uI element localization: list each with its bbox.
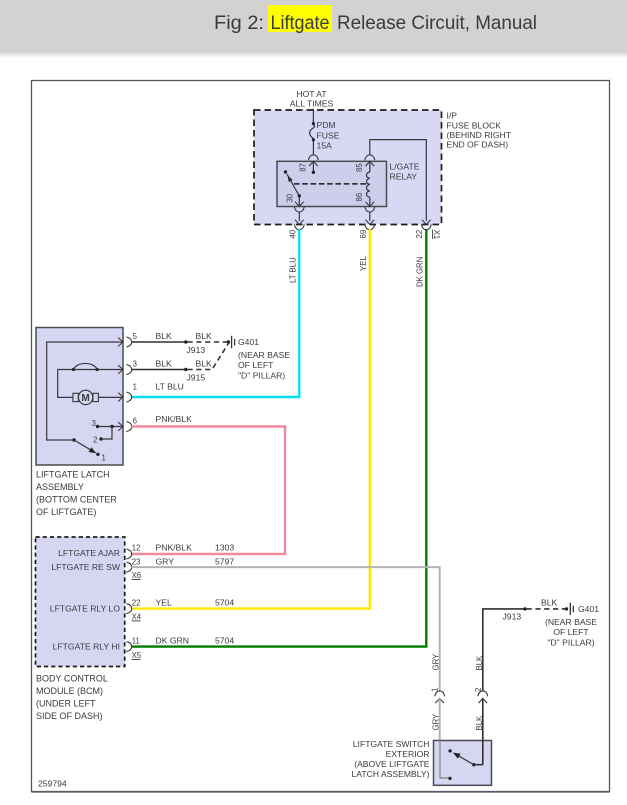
switch S1 contacts and blade — [448, 749, 475, 780]
svg-text:GRY: GRY — [432, 653, 441, 671]
pin label 40 — [289, 229, 298, 238]
BCM pin cups 12 23 22 11 — [126, 549, 131, 652]
svg-text:BLK: BLK — [156, 358, 173, 368]
svg-text:15A: 15A — [317, 141, 333, 151]
svg-text:RELAY: RELAY — [390, 171, 418, 181]
relay U1 L/GATE RELAY (box) — [277, 161, 387, 206]
svg-text:LFTGATE AJAR: LFTGATE AJAR — [58, 548, 120, 558]
label DK GRN 5704 — [156, 635, 235, 645]
connector label X5 — [132, 651, 142, 660]
svg-text:(NEAR BASE: (NEAR BASE — [238, 350, 290, 360]
label BLK (to G401) — [196, 331, 213, 341]
wire GRY inside switch box — [440, 741, 449, 779]
label G401 (upper) — [238, 337, 290, 380]
svg-text:"D" PILLAR): "D" PILLAR) — [547, 637, 594, 647]
label BLK (pin3 to G401) — [196, 358, 213, 368]
splice label J915 — [187, 372, 206, 382]
label BLK vertical (below break) — [475, 715, 484, 731]
label PNK/BLK (latch end) — [156, 414, 193, 424]
svg-text:1: 1 — [102, 454, 106, 463]
svg-text:Fig 2:: Fig 2: — [214, 12, 264, 34]
latch pin cups 5 3 1 6 — [126, 337, 131, 432]
relay pin 30 wire to box bottom — [295, 194, 304, 206]
svg-text:30: 30 — [286, 193, 295, 202]
svg-text:OF LEFT: OF LEFT — [238, 360, 274, 370]
label YEL vertical — [359, 256, 368, 271]
svg-text:3: 3 — [133, 360, 137, 369]
fuse block bottom connector cups X1 — [294, 224, 431, 229]
label GRY vertical (below break) — [432, 713, 441, 731]
latch contact label 1 — [102, 454, 106, 463]
splice label J913 — [187, 345, 206, 355]
wire BLK latch pin 3 to splice J915 — [131, 368, 187, 371]
relay pin 30 exit cup and wire to fuse block edge — [294, 207, 304, 225]
svg-text:LFTGATE RLY LO: LFTGATE RLY LO — [50, 604, 121, 614]
svg-text:MODULE (BCM): MODULE (BCM) — [36, 686, 103, 696]
label BLK (lower ground run) — [541, 598, 558, 608]
svg-text:BLK: BLK — [475, 655, 484, 671]
svg-text:LIFTGATE SWITCH: LIFTGATE SWITCH — [353, 739, 430, 749]
svg-text:G401: G401 — [238, 337, 259, 347]
svg-text:3: 3 — [92, 419, 96, 428]
pin label 22 — [415, 230, 424, 239]
label GRY 5797 — [156, 556, 235, 566]
label BODY CONTROL MODULE (BCM) (UNDER LEFT SIDE OF DASH) — [36, 674, 108, 722]
svg-text:I/P: I/P — [447, 111, 458, 121]
svg-text:Release Circuit, Manual: Release Circuit, Manual — [337, 12, 537, 34]
connector cup at relay pin 85 — [365, 155, 375, 160]
svg-text:5704: 5704 — [215, 597, 234, 607]
svg-text:(BEHIND RIGHT: (BEHIND RIGHT — [447, 130, 512, 140]
connector cavity label 2 — [474, 688, 483, 692]
svg-text:OF LEFT: OF LEFT — [553, 627, 589, 637]
pin label 6 — [133, 417, 137, 426]
relay switch blade (30 to 87) — [284, 170, 300, 196]
svg-text:DK GRN: DK GRN — [415, 257, 424, 287]
label DK GRN vertical — [415, 257, 424, 287]
wire YEL (relay 86 to BCM pin 22) — [131, 229, 369, 608]
wire BLK dashed J913 to G401 (lower) — [527, 608, 565, 610]
svg-text:X4: X4 — [132, 612, 142, 621]
svg-text:LFTGATE RLY HI: LFTGATE RLY HI — [53, 642, 120, 652]
svg-text:22: 22 — [415, 230, 424, 239]
svg-text:"D" PILLAR): "D" PILLAR) — [238, 370, 285, 380]
label YEL 5704 — [156, 597, 235, 607]
latch internal wire pin 6 with contacts 3 and 2 — [96, 422, 123, 440]
wire relay pin 85 feed from coil top to DK GRN drop — [370, 140, 427, 221]
wire fuse to relay pin 87 — [312, 141, 314, 155]
svg-text:J913: J913 — [503, 611, 522, 621]
svg-text:87: 87 — [299, 163, 308, 172]
latch motor M1 — [73, 390, 99, 404]
svg-text:GRY: GRY — [432, 713, 441, 731]
pin label 86 — [355, 193, 364, 202]
svg-text:ALL TIMES: ALL TIMES — [290, 99, 334, 109]
svg-text:BLK: BLK — [196, 331, 213, 341]
label LT BLU horizontal — [156, 381, 184, 391]
svg-text:12: 12 — [132, 543, 141, 552]
svg-text:GRY: GRY — [156, 556, 175, 566]
svg-text:BLK: BLK — [541, 598, 558, 608]
svg-text:22: 22 — [132, 598, 141, 607]
pin label 11 — [132, 636, 140, 645]
ground G401 (lower) — [565, 603, 574, 615]
label GRY vertical (above break) — [432, 653, 441, 671]
svg-text:1: 1 — [431, 688, 440, 692]
svg-text:(BOTTOM CENTER: (BOTTOM CENTER — [36, 495, 117, 505]
wire from HOT AT ALL TIMES into fuse block — [312, 109, 314, 124]
svg-text:69: 69 — [359, 230, 368, 239]
pin label 69 — [359, 230, 368, 239]
svg-text:FUSE BLOCK: FUSE BLOCK — [447, 120, 502, 130]
relay pin 87 terminal (arrow + wire + junction) — [309, 161, 318, 174]
svg-text:X1: X1 — [432, 230, 441, 240]
pin label 12 — [132, 543, 141, 552]
svg-text:END OF DASH): END OF DASH) — [447, 140, 509, 150]
latch contact label 2 — [93, 435, 97, 444]
svg-text:LT BLU: LT BLU — [288, 257, 297, 283]
svg-text:J915: J915 — [187, 372, 206, 382]
svg-text:LT BLU: LT BLU — [156, 381, 184, 391]
label BLK vertical (above break) — [475, 655, 484, 671]
label I/P FUSE BLOCK (BEHIND RIGHT END OF DASH) — [447, 111, 512, 150]
svg-text:BLK: BLK — [475, 715, 484, 731]
svg-text:SIDE OF DASH): SIDE OF DASH) — [36, 711, 103, 721]
svg-text:40: 40 — [289, 229, 298, 238]
pin label 85 — [355, 163, 364, 172]
wire LT BLU (relay 30 to latch pin 1) — [131, 229, 299, 397]
label BLK (pin 5 run) — [156, 331, 173, 341]
latch switch blade to contact 1 — [72, 438, 99, 456]
wire DK GRN (relay 85 to BCM pin 11) — [131, 229, 426, 646]
svg-text:PNK/BLK: PNK/BLK — [156, 414, 193, 424]
svg-text:FUSE: FUSE — [317, 130, 340, 140]
title Fig 2: Liftgate Release Circuit, Manual — [214, 5, 537, 34]
svg-text:OF LIFTGATE): OF LIFTGATE) — [36, 507, 96, 517]
label LIFTGATE LATCH ASSEMBLY (BOTTOM CENTER OF LIFTGATE) — [36, 470, 117, 518]
pin label 30 — [286, 193, 295, 202]
connector cavity label 1 — [431, 688, 440, 692]
pin label 87 — [299, 163, 308, 172]
pin label 5 — [133, 332, 138, 341]
svg-text:J913: J913 — [187, 345, 206, 355]
svg-text:LIFTGATE LATCH: LIFTGATE LATCH — [36, 470, 110, 480]
label LT BLU vertical — [288, 257, 297, 283]
relay mechanical dashed link — [294, 183, 370, 185]
svg-text:(ABOVE LIFTGATE: (ABOVE LIFTGATE — [354, 759, 430, 769]
svg-text:259794: 259794 — [38, 779, 67, 789]
svg-text:L/GATE: L/GATE — [390, 162, 420, 172]
diagram number 259794 — [38, 779, 67, 789]
I/P fuse block (dashed box) — [254, 110, 442, 225]
svg-text:EXTERIOR: EXTERIOR — [386, 749, 430, 759]
label G401 (lower) — [545, 604, 599, 647]
latch internal wire pin 3 with breaker arc — [58, 363, 123, 397]
svg-text:85: 85 — [355, 163, 364, 172]
svg-text:86: 86 — [355, 193, 364, 202]
liftgate latch assembly box — [36, 328, 123, 466]
svg-text:Liftgate: Liftgate — [271, 12, 330, 34]
pin label 22 — [132, 598, 141, 607]
body control module BCM (dashed box) — [36, 537, 125, 667]
svg-text:2: 2 — [474, 688, 483, 692]
wire BLK switch to corner and J913 — [474, 607, 527, 765]
label BLK (pin 3 run) — [156, 358, 173, 368]
svg-text:BODY CONTROL: BODY CONTROL — [36, 674, 108, 684]
label PDM FUSE 15A — [317, 120, 340, 150]
svg-text:HOT AT: HOT AT — [296, 89, 327, 99]
svg-text:X6: X6 — [132, 571, 142, 580]
connector label X6 — [132, 571, 142, 580]
label L/GATE RELAY — [390, 162, 420, 182]
svg-text:1: 1 — [133, 382, 137, 391]
liftgate switch exterior box — [434, 741, 492, 786]
svg-text:YEL: YEL — [359, 256, 368, 271]
svg-text:BLK: BLK — [156, 331, 173, 341]
label LIFTGATE SWITCH EXTERIOR (ABOVE LIFTGATE LATCH ASSEMBLY) — [351, 739, 429, 779]
svg-text:(NEAR BASE: (NEAR BASE — [545, 617, 597, 627]
wire GRY BCM pin 23 to liftgate switch — [131, 567, 444, 741]
latch contact label 3 — [92, 419, 96, 428]
wire BLK latch pin 5 to splice J913 — [131, 340, 187, 343]
svg-text:LFTGATE RE SW: LFTGATE RE SW — [51, 562, 120, 572]
svg-text:DK GRN: DK GRN — [156, 635, 189, 645]
svg-text:LATCH ASSEMBLY): LATCH ASSEMBLY) — [351, 769, 429, 779]
latch internal wire pin 1 (motor to edge) — [98, 393, 123, 402]
BCM internal labels — [50, 548, 121, 652]
svg-text:ASSEMBLY: ASSEMBLY — [36, 482, 84, 492]
svg-text:YEL: YEL — [156, 597, 172, 607]
wire BLK dashed J915 to G401 — [188, 344, 229, 370]
svg-text:1303: 1303 — [215, 542, 234, 552]
label HOT AT ALL TIMES — [290, 89, 334, 109]
fuse F1 PDM FUSE 15A — [310, 122, 315, 141]
svg-text:5: 5 — [133, 332, 138, 341]
svg-text:2: 2 — [93, 435, 97, 444]
svg-text:PDM: PDM — [317, 120, 336, 130]
svg-text:G401: G401 — [578, 604, 599, 614]
splice label J913 (lower) — [503, 611, 522, 621]
relay pin 86 exit cup and wire to fuse block edge — [365, 207, 375, 225]
svg-text:M: M — [81, 393, 89, 404]
DK GRN feed arrow at fuse block edge — [422, 220, 431, 225]
svg-text:PNK/BLK: PNK/BLK — [156, 542, 193, 552]
ground G401 (upper) — [227, 336, 235, 348]
connector label X1 — [432, 230, 441, 240]
relay coil 85-86 — [366, 161, 375, 206]
pin label 1 — [133, 382, 137, 391]
connector label X4 — [132, 612, 142, 621]
wire PNK/BLK latch pin 6 to BCM pin 12 — [131, 427, 285, 555]
svg-text:6: 6 — [133, 417, 137, 426]
svg-text:11: 11 — [132, 636, 140, 645]
pin label 23 — [132, 557, 141, 566]
latch internal wire pin 5 — [47, 338, 123, 440]
svg-text:23: 23 — [132, 557, 141, 566]
svg-text:5704: 5704 — [215, 635, 234, 645]
svg-text:(UNDER LEFT: (UNDER LEFT — [36, 699, 96, 709]
pin label 3 — [133, 360, 137, 369]
wire BLK dashed J913 to G401 — [188, 341, 228, 343]
svg-text:BLK: BLK — [196, 358, 213, 368]
svg-text:X5: X5 — [132, 651, 142, 660]
svg-text:5797: 5797 — [215, 556, 234, 566]
connector cup at relay pin 87 — [308, 155, 318, 160]
header bar — [0, 0, 627, 58]
label PNK/BLK 1303 — [156, 542, 235, 552]
